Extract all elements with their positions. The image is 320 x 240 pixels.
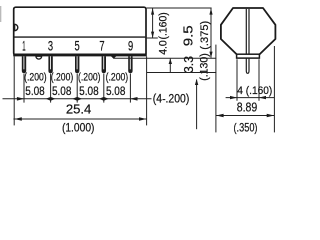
dim 9.5 stem <box>210 8 212 57</box>
svg-text:3.3: 3.3 <box>181 56 196 73</box>
svg-text:(.200): (.200) <box>24 72 47 84</box>
pin 5 extension line <box>76 74 78 103</box>
dim line 4 <box>226 97 275 99</box>
scan artifact left edge <box>0 6 2 22</box>
standoff left extension line <box>236 59 238 101</box>
pin 9 extension line <box>129 74 131 103</box>
package bottom thick edge <box>13 53 147 56</box>
svg-text:(4-.200): (4-.200) <box>153 93 190 105</box>
svg-text:(.375): (.375) <box>199 21 211 50</box>
svg-text:5: 5 <box>75 38 80 54</box>
svg-text:5.08: 5.08 <box>106 84 126 98</box>
svg-text:7: 7 <box>99 38 104 54</box>
index notch on left edge <box>15 24 18 30</box>
right extension line <box>146 56 148 125</box>
svg-text:(.200): (.200) <box>78 72 101 84</box>
standoff bar <box>237 54 260 58</box>
top extension line right <box>147 7 212 9</box>
pin 1 extension line <box>23 74 25 103</box>
pin 9 <box>128 56 132 73</box>
svg-text:(.350): (.350) <box>234 121 258 135</box>
svg-text:9: 9 <box>128 38 133 54</box>
svg-text:9.5: 9.5 <box>180 25 195 46</box>
dim line 25.4 <box>13 118 146 120</box>
svg-text:5.08: 5.08 <box>79 84 99 98</box>
svg-text:5.08: 5.08 <box>25 84 45 98</box>
svg-text:4 (.160): 4 (.160) <box>237 85 272 97</box>
side view pin through body <box>245 9 247 54</box>
pin 3 extension line <box>50 74 52 103</box>
pin 7 extension line <box>103 74 105 103</box>
dim 3.3 stem <box>169 59 171 73</box>
divider extension line <box>147 37 158 39</box>
package body front view <box>14 7 146 55</box>
chain dimension line <box>3 98 152 100</box>
svg-text:1: 1 <box>22 38 25 54</box>
svg-text:4.0 (.160): 4.0 (.160) <box>157 12 169 55</box>
side view right extension line <box>273 46 275 132</box>
package divider line <box>15 36 146 38</box>
svg-text:(.130): (.130) <box>199 53 211 81</box>
svg-text:3: 3 <box>48 38 53 54</box>
left extension line <box>13 56 15 125</box>
pin 5 <box>75 56 79 73</box>
svg-text:25.4: 25.4 <box>66 101 92 116</box>
pin 3 <box>48 56 52 73</box>
side view left extension line <box>215 45 217 133</box>
pin 7 <box>102 56 106 73</box>
svg-text:(.200): (.200) <box>106 72 129 84</box>
index bump under bottom edge <box>36 56 42 59</box>
leader stem with up arrow below (.130) <box>196 80 198 130</box>
dim 4.0 stem <box>152 8 154 37</box>
pin 1 <box>22 56 26 73</box>
dim line 8.89 <box>216 115 275 117</box>
seating plane datum triangle <box>111 56 117 59</box>
standoff right extension line <box>258 59 260 101</box>
svg-text:8.89: 8.89 <box>237 100 258 115</box>
svg-text:(.200): (.200) <box>51 72 74 84</box>
seating plane line <box>113 57 216 59</box>
svg-text:(1.000): (1.000) <box>62 120 95 134</box>
side view octagon body <box>221 8 276 55</box>
pin tip line right <box>147 72 217 74</box>
side view pin below standoff <box>246 58 249 73</box>
svg-text:5.08: 5.08 <box>52 84 72 98</box>
